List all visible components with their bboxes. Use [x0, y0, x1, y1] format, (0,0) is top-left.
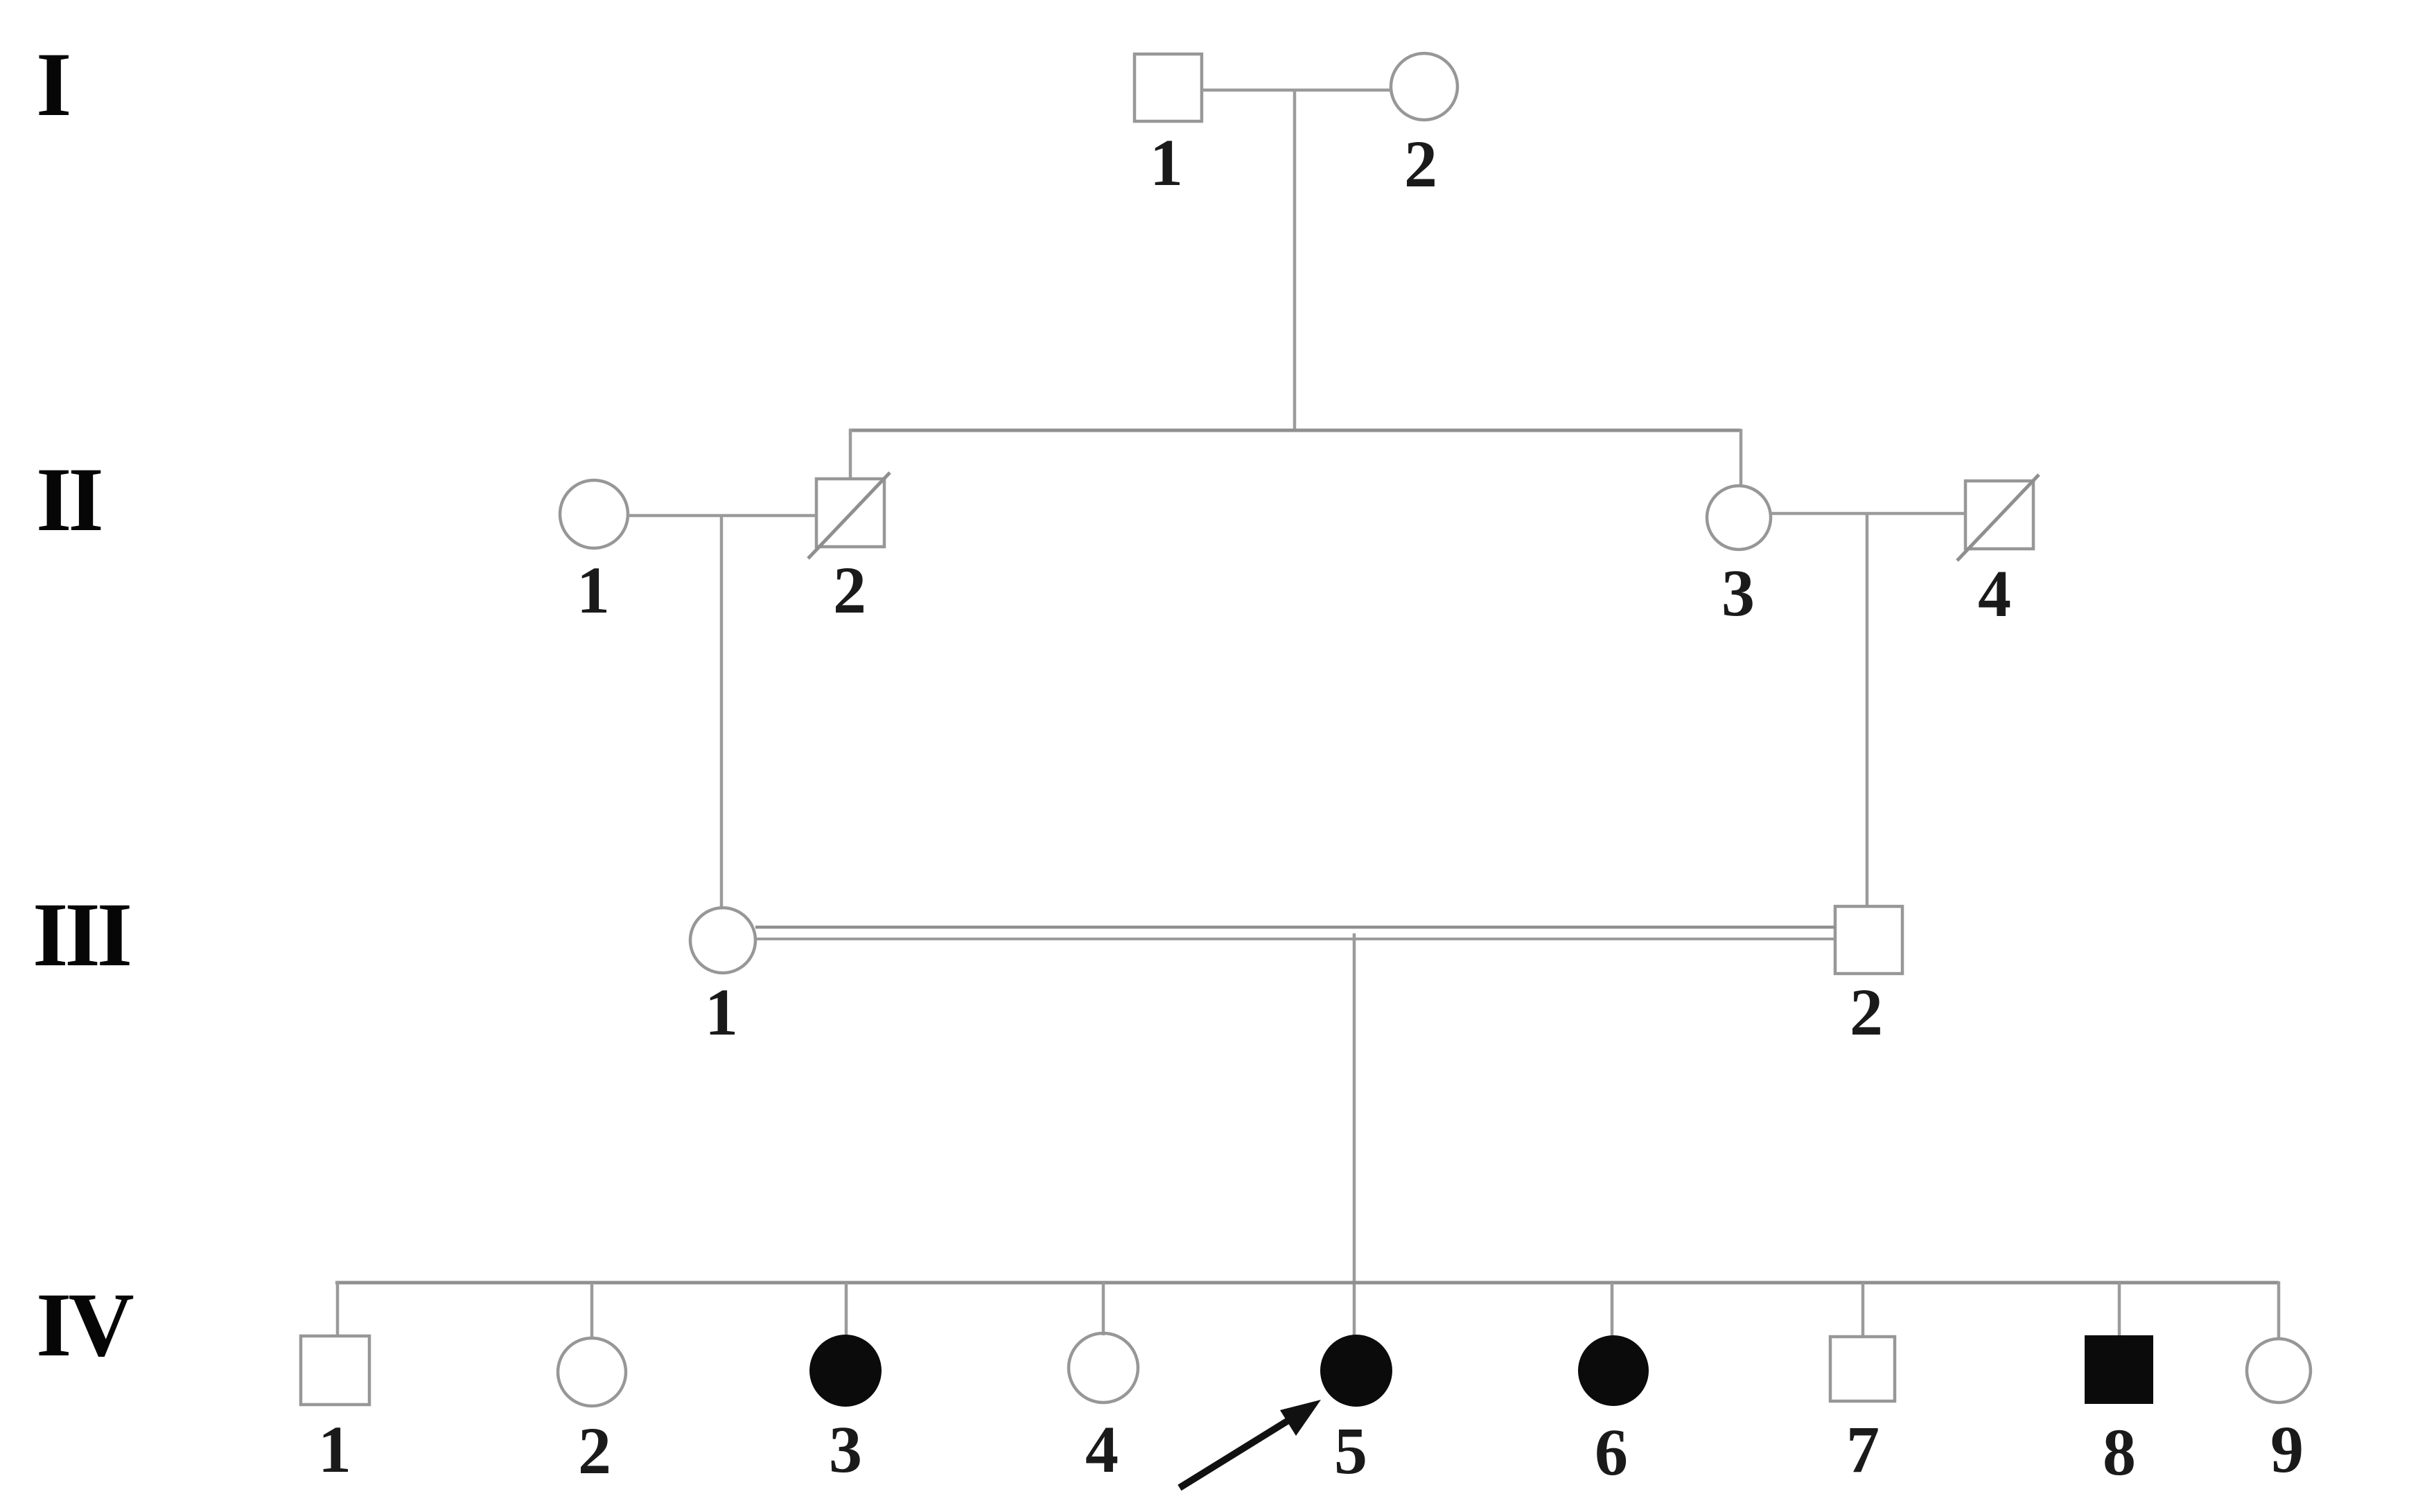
wire: drop line to IV-2	[590, 1283, 594, 1338]
individual III-1 unaffected female circle	[690, 908, 755, 973]
svg-text:1: 1	[577, 553, 610, 627]
slash over II-4	[1957, 475, 2039, 561]
svg-text:2: 2	[1404, 127, 1437, 201]
svg-text:2: 2	[578, 1414, 611, 1488]
svg-text:1: 1	[1150, 125, 1183, 200]
individual IV-7 unaffected male square	[1830, 1337, 1895, 1401]
svg-text:II: II	[36, 448, 100, 550]
wire: drop line to IV-3	[845, 1283, 848, 1337]
wire: sibship line generation II	[849, 429, 1741, 432]
svg-text:3: 3	[829, 1412, 862, 1486]
individual II-3 unaffected female circle	[1707, 486, 1771, 550]
svg-text:2: 2	[833, 553, 866, 627]
individual I-2 unaffected female circle	[1391, 53, 1457, 120]
individual IV-6 affected female filled circle	[1578, 1335, 1649, 1406]
wire: drop line to IV-6	[1611, 1283, 1614, 1337]
wire: marriage line I-1 to I-2	[1202, 89, 1391, 92]
individual IV-1 unaffected male square	[301, 1336, 369, 1405]
wire: descent line from couple I to sibship II	[1293, 90, 1297, 430]
svg-text:6: 6	[1595, 1415, 1628, 1489]
wire: drop line to IV-9	[2277, 1281, 2281, 1339]
svg-text:I: I	[36, 33, 69, 135]
wire: drop line to II-2	[849, 429, 852, 479]
wire: drop line to IV-1	[336, 1281, 340, 1336]
svg-text:1: 1	[318, 1412, 351, 1486]
svg-text:4: 4	[1085, 1412, 1119, 1486]
slash over II-2	[808, 473, 890, 559]
individual I-1 unaffected male square	[1134, 54, 1202, 121]
proband arrow pointing to IV-5	[1180, 1400, 1321, 1488]
wire: consanguineous double marriage line upper	[755, 926, 1835, 929]
wire: sibship line generation IV	[335, 1281, 2279, 1285]
svg-text:III: III	[33, 884, 130, 985]
individual II-4 deceased male square with slash	[1965, 481, 2033, 549]
wire: descent line from couple II-3/II-4 to III-2	[1866, 513, 1869, 908]
wire: drop line to IV-7	[1861, 1283, 1865, 1337]
individual IV-9 unaffected female circle	[2247, 1339, 2311, 1403]
wire: drop line to IV-4	[1102, 1283, 1105, 1335]
individual II-2 deceased male square with slash	[816, 479, 884, 547]
individual IV-3 affected female filled circle	[809, 1335, 882, 1407]
wire: consanguineous double marriage line lower	[755, 938, 1835, 940]
svg-text:4: 4	[1978, 556, 2011, 631]
individual IV-5 affected female filled circle (proband)	[1320, 1335, 1392, 1407]
wire: descent line from couple III to sibship IV	[1353, 933, 1356, 1336]
svg-text:2: 2	[1850, 975, 1883, 1049]
individual II-1 unaffected female circle	[560, 480, 628, 548]
wire: drop line to IV-8	[2118, 1283, 2121, 1335]
svg-text:9: 9	[2270, 1412, 2304, 1486]
wire: drop line to II-3	[1740, 429, 1743, 486]
wire: descent line from couple II-1/II-2 to III-1	[720, 516, 724, 908]
svg-text:3: 3	[1721, 556, 1755, 630]
wire: marriage line II-1 to II-2	[628, 514, 816, 518]
individual III-2 unaffected male square	[1835, 906, 1902, 974]
individual IV-2 unaffected female circle	[558, 1338, 626, 1406]
svg-text:5: 5	[1334, 1414, 1367, 1488]
individual IV-4 unaffected female circle	[1069, 1333, 1138, 1403]
svg-text:IV: IV	[36, 1274, 133, 1375]
svg-text:8: 8	[2103, 1415, 2136, 1489]
svg-text:7: 7	[1846, 1412, 1879, 1486]
individual IV-8 affected male filled square	[2085, 1335, 2153, 1404]
svg-text:1: 1	[705, 975, 738, 1049]
wire: marriage line II-3 to II-4	[1771, 512, 1965, 516]
